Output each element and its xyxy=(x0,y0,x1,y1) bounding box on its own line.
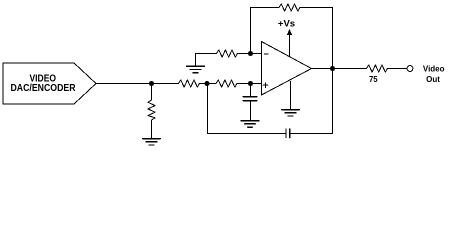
resistor R3 (shunt to ground) xyxy=(148,100,155,120)
ground G3 xyxy=(241,121,259,127)
wire: right vertical (output to feedback rails) xyxy=(332,8,334,134)
wire: top rail right of Rf xyxy=(300,7,333,9)
wire: bottom rail left of C1 xyxy=(208,133,287,135)
wire: C2 to ground xyxy=(250,101,252,121)
node A junction xyxy=(205,81,210,86)
op-amp A1 xyxy=(261,42,311,96)
wire: ground stem G2 xyxy=(195,54,197,67)
resistor Rf (feedback) xyxy=(279,4,300,11)
svg-text:DAC/ENCODER: DAC/ENCODER xyxy=(11,83,77,94)
wire: R2 to op-amp +input xyxy=(237,83,262,85)
svg-text:75: 75 xyxy=(369,75,378,84)
wire: node B down to C2 xyxy=(250,84,252,97)
wire: node 1 down to R3 xyxy=(151,84,153,101)
svg-text:Out: Out xyxy=(426,75,440,84)
wire: left vertical down to inverting node xyxy=(250,8,252,54)
wire: Ro to output terminal xyxy=(388,68,408,70)
node 1 junction xyxy=(149,81,154,86)
wire: G2 to Rg xyxy=(196,53,217,55)
wire: bottom rail right of C1 xyxy=(290,133,333,135)
power +Vs pin xyxy=(278,19,295,57)
node B junction xyxy=(248,81,253,86)
ground G1 xyxy=(143,139,161,145)
wire: R1 to R2 xyxy=(200,83,217,85)
wire: op-amp output to Ro xyxy=(312,68,367,70)
wire: Rg to op-amp -input xyxy=(238,53,262,55)
svg-text:+Vs: +Vs xyxy=(278,19,295,30)
wire: op-amp ground stem xyxy=(290,81,292,109)
capacitor C1 (feedback) xyxy=(286,129,290,137)
ground G2 xyxy=(187,66,205,72)
capacitor C2 xyxy=(243,97,257,101)
wire: node A down to bottom rail xyxy=(207,84,209,134)
resistor R2 xyxy=(216,80,237,87)
output node junction xyxy=(330,66,335,71)
resistor R1 xyxy=(179,80,200,87)
ground G4 xyxy=(282,110,300,116)
wire: R3 to ground xyxy=(151,120,153,139)
block U1 VIDEO DAC/ENCODER xyxy=(3,63,96,104)
resistor Ro 75 xyxy=(367,65,388,72)
svg-text:Video: Video xyxy=(423,64,445,73)
inverting node junction xyxy=(248,51,253,56)
resistor Rg xyxy=(217,50,238,57)
wire: top rail left of Rf xyxy=(251,7,280,9)
wire: DAC output to node 1 xyxy=(96,83,179,85)
label Video Out xyxy=(423,64,445,84)
terminal: Video Out connector xyxy=(407,66,413,72)
